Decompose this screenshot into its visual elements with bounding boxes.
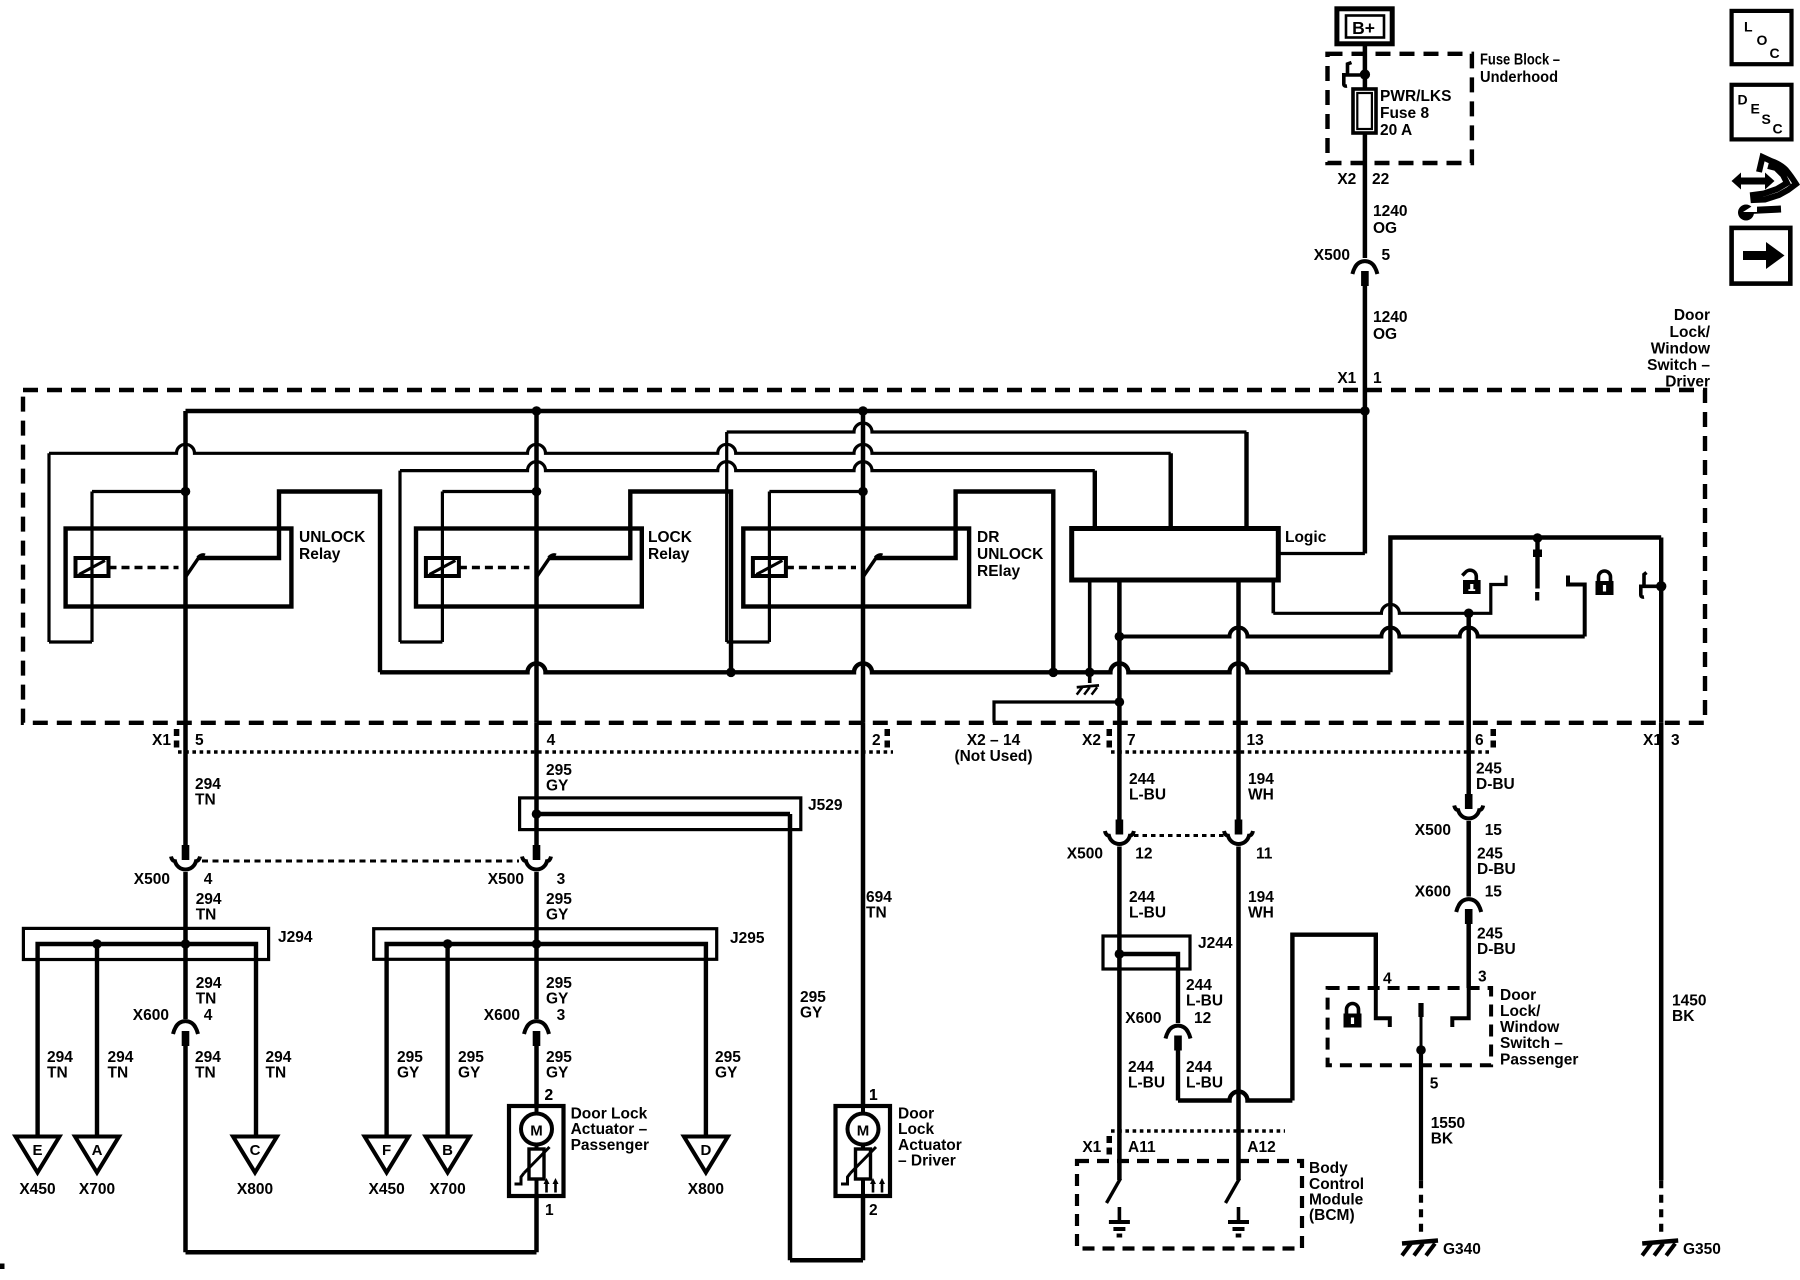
logic module box (1072, 529, 1279, 581)
relay DRUNLOCK: box (743, 529, 969, 607)
bottom run to passenger actuator pin 1 (186, 1250, 537, 1255)
svg-text:1: 1 (1373, 370, 1382, 387)
ground G340 (1402, 1241, 1438, 1244)
svg-text:L-BU: L-BU (1128, 1075, 1165, 1092)
svg-text:L-BU: L-BU (1186, 1075, 1223, 1092)
svg-text:TN: TN (196, 991, 217, 1008)
svg-text:Actuator –: Actuator – (571, 1121, 648, 1138)
svg-text:11: 11 (1256, 846, 1273, 863)
internal bus wire of switch assembly (380, 663, 1390, 672)
svg-text:5: 5 (195, 732, 204, 749)
svg-text:5: 5 (1430, 1075, 1439, 1092)
passenger switch center post (1418, 1003, 1423, 1017)
relay UNLOCK: main vertical wire (183, 411, 188, 723)
svg-text:12: 12 (1135, 846, 1152, 863)
svg-text:Door: Door (898, 1106, 934, 1123)
BCM switch to ground A12 (1226, 1179, 1240, 1204)
connector X500 pin 15 (1465, 794, 1473, 809)
fusible element curl (1348, 63, 1352, 75)
triangle connector D (684, 1137, 728, 1173)
relay UNLOCK: coil return to logic (49, 640, 92, 643)
svg-text:Switch –: Switch – (1500, 1035, 1563, 1052)
relay UNLOCK: dashed actuation link (109, 566, 179, 569)
svg-text:295: 295 (546, 891, 572, 908)
svg-text:TN: TN (866, 905, 887, 922)
svg-text:22: 22 (1372, 171, 1389, 188)
svg-text:3: 3 (557, 1007, 566, 1024)
svg-text:Driver: Driver (1665, 374, 1710, 391)
relay LOCK: coil feed (442, 490, 536, 493)
svg-text:X600: X600 (133, 1007, 169, 1024)
feed to Logic right side (1363, 411, 1368, 554)
connector X500 pin 12 (1116, 820, 1124, 835)
svg-text:OG: OG (1373, 326, 1397, 343)
svg-text:Window: Window (1500, 1019, 1560, 1036)
svg-text:294: 294 (47, 1049, 73, 1066)
svg-text:Lock/: Lock/ (1500, 1003, 1541, 1020)
svg-text:1550: 1550 (1431, 1115, 1465, 1132)
right sidebar icon: wiring-jump scribble arrow (1740, 178, 1766, 185)
wrench part of scribble icon (1738, 205, 1754, 221)
wire fuse to X500-5 (1363, 133, 1368, 258)
fuse block underhood dashed box (1328, 54, 1472, 163)
splice J529 (520, 798, 801, 830)
wire 694 TN from X1-2 to driver actuator (861, 723, 866, 1106)
svg-text:PWR/LKS: PWR/LKS (1380, 88, 1451, 105)
svg-text:E: E (1751, 101, 1760, 117)
logic pin to driver unlock contact (y=613) (1272, 580, 1276, 613)
svg-text:TN: TN (196, 907, 217, 924)
svg-text:Relay: Relay (299, 546, 341, 563)
svg-text:Actuator: Actuator (898, 1137, 962, 1154)
svg-text:295: 295 (715, 1049, 741, 1066)
relay LOCK: dashed actuation link (459, 566, 530, 569)
svg-text:Window: Window (1651, 341, 1711, 358)
connector X600 pin 12 (1166, 1026, 1191, 1039)
svg-text:X1: X1 (1337, 370, 1356, 387)
svg-text:294: 294 (196, 975, 222, 992)
svg-text:D-BU: D-BU (1476, 776, 1515, 793)
svg-text:C: C (1770, 45, 1780, 61)
branch to passenger switch pin 4 (1176, 1051, 1180, 1101)
svg-text:4: 4 (204, 871, 213, 888)
passenger switch contacts (1376, 988, 1390, 1027)
svg-text:X500: X500 (1415, 822, 1451, 839)
svg-text:2: 2 (545, 1087, 554, 1104)
wire 294 TN to bottom run (183, 1046, 188, 1252)
svg-text:1450: 1450 (1672, 993, 1706, 1010)
driver switch frame (1390, 538, 1661, 673)
wire 294 TN from X1-5 (183, 723, 188, 845)
svg-text:Fuse Block –: Fuse Block – (1480, 52, 1560, 69)
svg-text:J295: J295 (730, 930, 765, 947)
splice J294 (23, 928, 268, 959)
battery B+ symbol (1337, 9, 1392, 44)
ground symbol under logic (1077, 685, 1099, 687)
right sidebar icon: LOC box (1732, 11, 1792, 64)
triangle connector B (426, 1137, 470, 1173)
svg-text:244: 244 (1129, 889, 1155, 906)
svg-text:J244: J244 (1198, 935, 1233, 952)
svg-text:244: 244 (1129, 771, 1155, 788)
svg-text:– Driver: – Driver (898, 1153, 956, 1170)
svg-text:O: O (1757, 32, 1768, 48)
connector X500 pin 3 (533, 845, 541, 860)
svg-text:4: 4 (204, 1007, 213, 1024)
svg-text:L-BU: L-BU (1129, 905, 1166, 922)
svg-text:M: M (530, 1123, 543, 1140)
splice J244 (1103, 936, 1190, 969)
svg-text:X2: X2 (1082, 732, 1101, 749)
svg-text:4: 4 (547, 732, 556, 749)
svg-text:Door Lock: Door Lock (571, 1106, 648, 1123)
right sidebar icon: DESC box (1732, 85, 1792, 140)
page artifact tick bottom-left (0, 1264, 5, 1270)
ground G350 (1642, 1241, 1678, 1244)
svg-text:294: 294 (108, 1049, 134, 1066)
svg-text:J294: J294 (278, 929, 313, 946)
svg-text:12: 12 (1194, 1010, 1211, 1027)
svg-text:X700: X700 (79, 1181, 115, 1198)
svg-text:20 A: 20 A (1380, 122, 1412, 139)
relay UNLOCK: switch blade (186, 557, 200, 578)
svg-text:GY: GY (715, 1065, 738, 1082)
wire to J244 (1117, 847, 1122, 1181)
svg-text:X1: X1 (152, 732, 171, 749)
dashed connector mate line X500 (202, 860, 519, 863)
svg-text:X2: X2 (1337, 171, 1356, 188)
dotted mate line X500 row (1134, 834, 1225, 837)
connector X600 pin 15 (1456, 899, 1481, 912)
svg-text:X450: X450 (368, 1181, 404, 1198)
connector X500 pin 11 (1235, 820, 1243, 835)
svg-text:M: M (857, 1123, 870, 1140)
svg-text:Body: Body (1309, 1160, 1348, 1177)
relay LOCK: switch common routing (550, 492, 732, 673)
svg-text:BK: BK (1431, 1131, 1454, 1148)
body control module dashed box (1077, 1161, 1302, 1249)
unlock contact bracket (1469, 576, 1506, 614)
wire below J294 (183, 944, 188, 1019)
svg-text:L: L (1744, 19, 1753, 35)
door lock actuator - passenger (509, 1106, 564, 1196)
svg-text:245: 245 (1477, 845, 1503, 862)
svg-text:C: C (1773, 121, 1783, 137)
svg-text:LOCK: LOCK (648, 529, 693, 546)
wire 1450 BK from X1-3 to G350 (1659, 723, 1664, 1181)
door lock actuator - driver (836, 1106, 891, 1196)
svg-text:E: E (32, 1142, 42, 1159)
svg-text:TN: TN (195, 792, 216, 809)
wire 244 L-BU logic to X2-7 (1117, 580, 1122, 820)
svg-text:194: 194 (1248, 889, 1274, 906)
wire 194 WH to BCM A12 (1236, 847, 1241, 1181)
svg-text:C: C (250, 1142, 261, 1159)
lock contact line (y=636.5) (1119, 628, 1584, 637)
svg-text:Module: Module (1309, 1192, 1364, 1209)
svg-text:Door: Door (1500, 987, 1536, 1004)
svg-text:X500: X500 (134, 871, 170, 888)
wire below J295 (534, 944, 539, 1019)
svg-text:X500: X500 (1314, 247, 1350, 264)
svg-text:F: F (382, 1142, 391, 1159)
svg-text:GY: GY (397, 1065, 420, 1082)
svg-text:294: 294 (195, 776, 221, 793)
svg-text:S: S (1762, 111, 1771, 127)
svg-text:D-BU: D-BU (1477, 861, 1516, 878)
svg-text:5: 5 (1382, 247, 1391, 264)
svg-text:1240: 1240 (1373, 309, 1407, 326)
svg-text:295: 295 (458, 1049, 484, 1066)
relay UNLOCK: switch common routing (199, 492, 381, 673)
svg-text:GY: GY (546, 907, 569, 924)
relay LOCK: coil return to logic (400, 640, 442, 643)
svg-text:L-BU: L-BU (1186, 993, 1223, 1010)
svg-text:X800: X800 (688, 1181, 724, 1198)
relay DRUNLOCK: coil (768, 492, 771, 643)
J244 branch to X600-12 (1119, 954, 1178, 1023)
svg-text:1240: 1240 (1373, 203, 1407, 220)
svg-text:244: 244 (1128, 1059, 1154, 1076)
wire 194 WH logic to X2-13 (1236, 580, 1241, 820)
svg-text:X2 – 14: X2 – 14 (967, 732, 1021, 749)
relay DRUNLOCK: dashed actuation link (786, 566, 856, 569)
wire 245 D-BU from driver switch pin 6 (1466, 613, 1471, 794)
relay UNLOCK: coil (90, 492, 93, 643)
svg-text:244: 244 (1186, 977, 1212, 994)
connector X500 pin 4 (182, 845, 190, 860)
svg-text:X600: X600 (484, 1007, 520, 1024)
svg-text:UNLOCK: UNLOCK (977, 546, 1044, 563)
wire B+ to fuse (1363, 44, 1368, 90)
svg-text:4: 4 (1383, 971, 1392, 988)
svg-text:6: 6 (1475, 732, 1484, 749)
svg-text:15: 15 (1485, 884, 1503, 901)
wire X500-5 to X1-1 (1363, 286, 1368, 413)
svg-text:245: 245 (1476, 760, 1502, 777)
svg-text:GY: GY (458, 1065, 481, 1082)
svg-text:295: 295 (546, 1049, 572, 1066)
passenger lock padlock icon (1347, 1004, 1359, 1014)
door lock/window switch - passenger dashed box (1328, 988, 1492, 1065)
svg-text:X700: X700 (429, 1181, 465, 1198)
relay DRUNLOCK: switch blade (863, 557, 877, 578)
svg-text:GY: GY (546, 1065, 569, 1082)
svg-text:194: 194 (1248, 771, 1274, 788)
svg-text:Logic: Logic (1285, 529, 1327, 546)
relay DRUNLOCK: switch common routing (876, 492, 1053, 673)
relay UNLOCK: box (66, 529, 292, 607)
svg-text:X600: X600 (1125, 1010, 1161, 1027)
svg-text:X450: X450 (19, 1181, 55, 1198)
connector X600 pin 4 (173, 1021, 198, 1034)
fuse PWR/LKS Fuse 8 20A (1353, 89, 1376, 133)
svg-text:BK: BK (1672, 1008, 1695, 1025)
triangle connector C (233, 1137, 277, 1173)
svg-text:OG: OG (1373, 220, 1397, 237)
triangle connector F (365, 1137, 409, 1173)
svg-text:15: 15 (1485, 822, 1503, 839)
svg-text:A11: A11 (1128, 1139, 1156, 1156)
svg-text:Control: Control (1309, 1176, 1364, 1193)
svg-text:B+: B+ (1352, 18, 1375, 38)
center post of driver switch (1535, 538, 1539, 589)
svg-text:3: 3 (1478, 968, 1487, 985)
svg-text:X800: X800 (237, 1181, 273, 1198)
svg-text:Door: Door (1674, 307, 1710, 324)
svg-text:G350: G350 (1683, 1241, 1721, 1258)
svg-text:L-BU: L-BU (1129, 787, 1166, 804)
svg-text:295: 295 (800, 989, 826, 1006)
svg-text:J529: J529 (808, 797, 843, 814)
svg-text:294: 294 (195, 1049, 221, 1066)
svg-text:X600: X600 (1415, 884, 1451, 901)
svg-text:D-BU: D-BU (1477, 941, 1516, 958)
svg-text:245: 245 (1477, 926, 1503, 943)
svg-text:GY: GY (546, 778, 569, 795)
svg-text:TN: TN (108, 1065, 129, 1082)
svg-text:295: 295 (546, 762, 572, 779)
svg-text:Lock: Lock (898, 1121, 935, 1138)
relay DRUNLOCK: coil feed (769, 490, 863, 493)
svg-text:294: 294 (196, 891, 222, 908)
relay DRUNLOCK: main vertical wire (861, 411, 866, 723)
connector dotted separator lines (178, 750, 893, 754)
svg-text:Lock/: Lock/ (1670, 324, 1711, 341)
X2-14 not used stub (994, 702, 1119, 723)
svg-text:Relay: Relay (648, 546, 690, 563)
svg-text:G340: G340 (1443, 1241, 1481, 1258)
svg-text:A: A (92, 1142, 103, 1159)
relay LOCK: switch blade (537, 557, 551, 578)
svg-text:WH: WH (1248, 905, 1274, 922)
svg-text:1: 1 (869, 1087, 878, 1104)
logic bottom pin to ground bus (1088, 580, 1092, 683)
svg-text:X500: X500 (488, 871, 524, 888)
switch lever curl (1644, 573, 1647, 587)
svg-text:2: 2 (869, 1202, 878, 1219)
svg-text:3: 3 (557, 871, 566, 888)
svg-text:D: D (1738, 92, 1748, 108)
svg-text:Passenger: Passenger (1500, 1052, 1578, 1069)
svg-text:RElay: RElay (977, 563, 1020, 580)
svg-text:694: 694 (866, 889, 892, 906)
svg-text:Fuse 8: Fuse 8 (1380, 105, 1429, 122)
triangle connector E (16, 1137, 60, 1173)
Door Lock/Window Switch - Driver dashed box (23, 390, 1705, 723)
connector X600 pin 3 (524, 1021, 549, 1034)
svg-text:WH: WH (1248, 787, 1274, 804)
svg-text:DR: DR (977, 529, 999, 546)
power wire from X1-1 across top of switch assembly (186, 409, 1365, 414)
unlock padlock icon (open) (1462, 570, 1476, 580)
wire J529 drop to driver actuator run (788, 814, 793, 1260)
wire 295 GY to actuator (534, 1046, 539, 1106)
triangle connector A (75, 1137, 119, 1173)
svg-text:294: 294 (266, 1049, 292, 1066)
lock padlock icon (closed) (1599, 571, 1611, 581)
svg-text:1: 1 (545, 1202, 554, 1219)
svg-text:TN: TN (195, 1065, 216, 1082)
svg-text:Switch –: Switch – (1647, 357, 1710, 374)
svg-text:Underhood: Underhood (1480, 69, 1558, 86)
svg-text:B: B (442, 1142, 453, 1159)
relay UNLOCK: coil feed (92, 490, 186, 493)
relay DRUNLOCK: coil return to logic (727, 640, 770, 643)
relay LOCK: coil (441, 492, 444, 643)
svg-text:244: 244 (1186, 1059, 1212, 1076)
svg-text:X1: X1 (1082, 1139, 1101, 1156)
svg-text:GY: GY (546, 991, 569, 1008)
svg-text:TN: TN (266, 1065, 287, 1082)
svg-text:7: 7 (1127, 732, 1136, 749)
svg-text:GY: GY (800, 1005, 823, 1022)
wire 1550 BK to G340 (1419, 1050, 1423, 1180)
svg-text:3: 3 (1671, 732, 1680, 749)
wire to J294 (183, 872, 188, 944)
relay LOCK: box (416, 529, 642, 607)
svg-text:13: 13 (1247, 732, 1265, 749)
svg-text:UNLOCK: UNLOCK (299, 529, 366, 546)
svg-text:295: 295 (546, 975, 572, 992)
svg-text:X500: X500 (1067, 846, 1103, 863)
svg-text:TN: TN (47, 1065, 68, 1082)
svg-text:(BCM): (BCM) (1309, 1207, 1355, 1224)
BCM switch to ground A11 (1107, 1179, 1121, 1204)
svg-text:A12: A12 (1247, 1139, 1275, 1156)
svg-text:D: D (700, 1142, 711, 1159)
svg-text:2: 2 (872, 732, 881, 749)
right sidebar icon: arrow box (1732, 228, 1791, 284)
svg-text:(Not Used): (Not Used) (955, 748, 1033, 765)
relay LOCK: main vertical wire (534, 411, 539, 723)
svg-text:295: 295 (397, 1049, 423, 1066)
svg-text:Passenger: Passenger (571, 1137, 649, 1154)
splice J295 (374, 929, 717, 960)
wire 295 GY from X1-4 (534, 723, 539, 845)
